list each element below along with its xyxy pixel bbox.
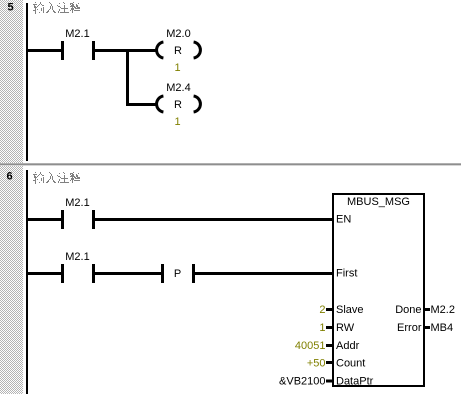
svg-text:+50: +50	[307, 358, 326, 370]
svg-text:Done: Done	[395, 304, 421, 316]
svg-text:Count: Count	[336, 358, 365, 370]
svg-text:MB4: MB4	[431, 322, 454, 334]
svg-text:M2.1: M2.1	[65, 197, 89, 209]
svg-text:M2.4: M2.4	[166, 82, 190, 94]
svg-text:2: 2	[319, 304, 325, 316]
svg-text:Error: Error	[397, 322, 422, 334]
svg-text:&VB2100: &VB2100	[279, 376, 325, 388]
svg-text:40051: 40051	[295, 340, 326, 352]
svg-text:Slave: Slave	[336, 304, 364, 316]
svg-text:RW: RW	[336, 322, 355, 334]
svg-text:Addr: Addr	[336, 340, 360, 352]
svg-text:1: 1	[319, 322, 325, 334]
svg-text:1: 1	[174, 62, 180, 74]
svg-text:M2.1: M2.1	[65, 28, 89, 40]
svg-text:First: First	[336, 268, 357, 280]
svg-text:EN: EN	[336, 214, 351, 226]
svg-text:M2.2: M2.2	[431, 304, 455, 316]
svg-text:5: 5	[7, 2, 13, 14]
svg-text:R: R	[174, 45, 182, 57]
svg-text:MBUS_MSG: MBUS_MSG	[347, 196, 410, 208]
svg-text:1: 1	[174, 116, 180, 128]
svg-text:DataPtr: DataPtr	[336, 376, 374, 388]
svg-text:P: P	[174, 268, 181, 280]
svg-text:R: R	[174, 99, 182, 111]
svg-text:M2.1: M2.1	[65, 251, 89, 263]
svg-text:M2.0: M2.0	[166, 28, 190, 40]
svg-text:6: 6	[6, 171, 12, 183]
